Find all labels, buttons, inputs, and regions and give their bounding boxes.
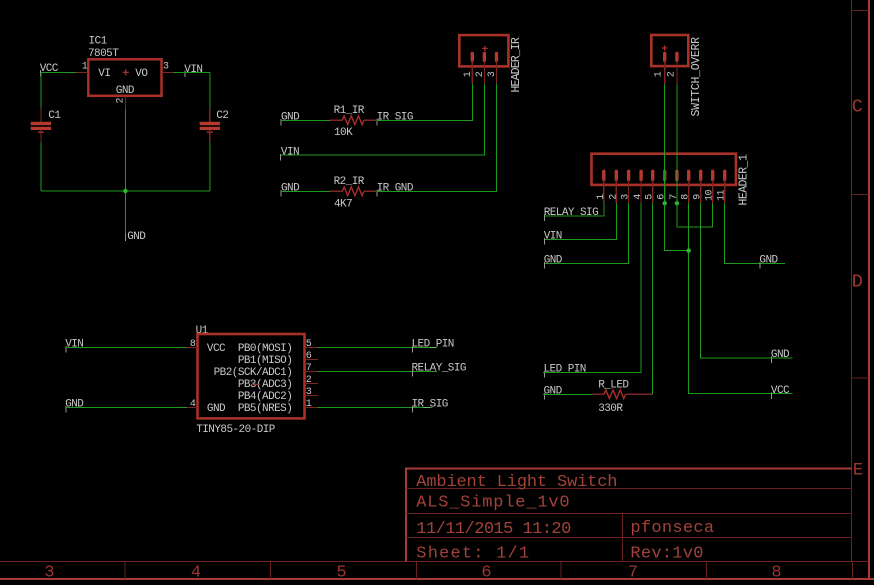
junction header pin6 — [663, 201, 667, 205]
svg-text:GND: GND — [65, 399, 84, 411]
IC U1 body — [198, 334, 305, 418]
svg-text:1: 1 — [596, 194, 607, 200]
svg-text:C1: C1 — [48, 110, 61, 122]
wire GND to R_LED — [543, 393, 593, 395]
svg-text:IC1: IC1 — [89, 36, 108, 48]
svg-text:PB5(NRES): PB5(NRES) — [238, 403, 292, 415]
tick IR_GND — [376, 190, 378, 197]
wire U1 pin7 RELAY_SIG — [318, 371, 437, 373]
svg-text:8: 8 — [771, 564, 781, 583]
wire ground rail — [41, 190, 210, 192]
svg-text:1: 1 — [653, 71, 664, 77]
tick RELAY_SIG header — [544, 214, 546, 221]
svg-text:9: 9 — [693, 194, 704, 200]
capacitor C2 — [200, 109, 220, 143]
wire header pin11 to GND — [725, 203, 786, 263]
svg-text:VIN: VIN — [65, 339, 83, 351]
junction header pin7 — [675, 201, 679, 205]
frame row divider B/C — [851, 9, 869, 11]
svg-text:SWITCH_OVERR: SWITCH_OVERR — [690, 37, 703, 117]
svg-text:3: 3 — [487, 71, 498, 77]
IC1 pin lead VO — [162, 71, 174, 73]
title block separator 2 — [406, 513, 851, 515]
svg-text:6: 6 — [306, 351, 312, 362]
svg-text:VCC: VCC — [40, 63, 59, 75]
svg-text:GND: GND — [544, 385, 563, 397]
wire header pin3 GND — [545, 203, 629, 263]
svg-text:330R: 330R — [598, 403, 623, 415]
wire left vertical lower — [40, 143, 42, 191]
svg-text:4: 4 — [190, 399, 196, 410]
wire header pin9 to GND right — [701, 203, 793, 358]
svg-text:ALS_Simple_1v0: ALS_Simple_1v0 — [416, 493, 570, 512]
svg-text:3: 3 — [621, 194, 632, 200]
tick LED_PIN U1 — [411, 346, 413, 353]
IC1 pin lead GND — [124, 96, 126, 109]
svg-text:2: 2 — [666, 71, 677, 77]
tick GND R2 — [280, 190, 282, 197]
wire left vertical upper — [40, 72, 42, 108]
wire SWITCH_OVERR pin2 down to header pin7 — [676, 84, 678, 203]
svg-text:C2: C2 — [216, 110, 228, 122]
svg-text:10K: 10K — [334, 127, 353, 139]
svg-text:5: 5 — [306, 339, 312, 350]
svg-text:Rev:1v0: Rev:1v0 — [630, 544, 703, 563]
tick GND bottom — [124, 234, 126, 241]
tick GND header pin3 — [544, 262, 546, 269]
HEADER_IR pin lead 3 — [496, 61, 498, 84]
wire GND to R1 — [281, 119, 330, 121]
frame column divider 8/end — [852, 562, 854, 579]
regulator IC1 body — [88, 59, 161, 96]
tick GND R_LED — [543, 393, 545, 400]
svg-text:HEADER_IR: HEADER_IR — [510, 37, 523, 92]
wire right vertical upper — [209, 72, 211, 108]
capacitor C1 — [31, 109, 51, 143]
svg-text:E: E — [853, 461, 864, 481]
svg-text:VCC: VCC — [771, 385, 790, 397]
SWITCH_OVERR pin lead 2 — [676, 61, 678, 85]
svg-text:PB3(ADC3): PB3(ADC3) — [238, 379, 292, 391]
wire VIN to U1 pin8 — [66, 347, 187, 349]
title block border — [405, 469, 851, 562]
wire GND to U1 pin4 — [66, 407, 187, 409]
HEADER_IR pin stub 1 — [471, 53, 474, 60]
frame outer vertical line — [868, 0, 870, 580]
wire header pin4 LED_PIN — [543, 203, 641, 372]
svg-text:1: 1 — [306, 399, 312, 410]
tick GND right mid — [771, 357, 773, 364]
wire header pin2 VIN — [545, 203, 616, 240]
wire VIN to header — [281, 84, 485, 156]
IC1 pin lead VI — [77, 71, 89, 73]
title block vertical divider — [621, 514, 623, 562]
frame row divider C/D — [851, 194, 869, 196]
svg-text:VCC: VCC — [207, 343, 226, 355]
svg-text:VO: VO — [135, 68, 148, 80]
HEADER_1 pin stubs — [604, 171, 725, 179]
connector SWITCH_OVERR body — [651, 35, 688, 66]
wire header pin7 to pin10 — [677, 203, 713, 227]
tick GND pin11 — [759, 262, 761, 269]
tick VIN header — [544, 238, 546, 245]
junction ground rail — [123, 189, 127, 193]
frame outer bottom line — [0, 578, 874, 580]
svg-text:GND: GND — [759, 255, 778, 267]
wire GND stem — [124, 109, 126, 239]
svg-text:RELAY_SIG: RELAY_SIG — [412, 363, 466, 375]
svg-text:R2_IR: R2_IR — [334, 176, 365, 188]
tick IR_SIG R1 — [376, 119, 378, 126]
title block separator 3 — [406, 536, 851, 538]
wire right vertical lower — [209, 143, 211, 191]
wire IR_GND to header — [377, 84, 497, 192]
svg-text:1: 1 — [463, 71, 474, 77]
svg-text:VIN: VIN — [544, 231, 562, 243]
svg-text:GND: GND — [544, 255, 563, 267]
svg-text:GND: GND — [281, 182, 300, 194]
svg-text:11/11/2015 11:20: 11/11/2015 11:20 — [416, 520, 571, 539]
frame inner bottom line — [0, 561, 869, 563]
svg-text:R1_IR: R1_IR — [334, 105, 365, 117]
wire SWITCH_OVERR pin1 down to header pin6 — [664, 84, 666, 203]
svg-text:RELAY_SIG: RELAY_SIG — [544, 207, 598, 219]
svg-text:GND: GND — [771, 349, 790, 361]
IC1 plus sign — [123, 69, 129, 75]
HEADER_IR pin lead 1 — [471, 61, 473, 84]
red dash over PB3 — [252, 383, 260, 385]
svg-text:8: 8 — [190, 339, 196, 350]
wire IR_SIG to header — [377, 84, 473, 121]
SWITCH_OVERR pin lead 1 — [664, 61, 666, 85]
SWITCH_OVERR pin stub 2 — [675, 53, 678, 60]
svg-text:4K7: 4K7 — [334, 199, 352, 211]
svg-text:LED_PIN: LED_PIN — [544, 363, 586, 375]
svg-text:VIN: VIN — [281, 146, 299, 158]
frame inner vertical line — [850, 0, 852, 562]
tick VIN U1 — [65, 346, 67, 353]
connector HEADER_1 body — [592, 154, 736, 185]
svg-text:VIN: VIN — [184, 64, 202, 76]
svg-text:Ambient Light Switch: Ambient Light Switch — [416, 473, 617, 492]
svg-text:2: 2 — [475, 71, 486, 77]
svg-text:C: C — [852, 97, 863, 118]
wire header pin5 to R_LED — [652, 203, 654, 394]
HEADER_IR pin lead 2 — [483, 61, 485, 84]
tick RELAY_SIG U1 — [411, 370, 413, 377]
frame row divider D/E — [851, 377, 869, 379]
svg-text:7: 7 — [628, 564, 638, 583]
wire IC1 to C2 — [173, 71, 210, 73]
wire GND to R2 — [281, 190, 330, 192]
svg-text:3: 3 — [44, 564, 54, 583]
tick VCC — [39, 70, 41, 77]
tick IR_SIG U1 — [411, 406, 413, 413]
svg-text:1: 1 — [82, 62, 88, 73]
svg-text:Sheet: 1/1: Sheet: 1/1 — [416, 544, 530, 563]
svg-text:PB0(MOSI): PB0(MOSI) — [238, 343, 292, 355]
svg-text:7: 7 — [306, 363, 312, 374]
svg-text:5: 5 — [336, 564, 346, 583]
svg-text:GND: GND — [127, 231, 146, 243]
svg-text:4: 4 — [633, 194, 644, 200]
svg-text:IR_SIG: IR_SIG — [412, 399, 448, 411]
resistor R1_IR — [330, 116, 376, 125]
U1 pin lead 8 — [187, 347, 198, 349]
svg-text:pfonseca: pfonseca — [630, 519, 714, 538]
svg-text:11: 11 — [717, 189, 728, 201]
wire header pin1 RELAY_SIG — [545, 203, 604, 216]
HEADER_1 pin leads — [604, 180, 725, 203]
svg-text:GND: GND — [207, 403, 226, 415]
connector HEADER_IR body — [459, 35, 508, 66]
wire header pin8 down to VCC — [689, 203, 793, 394]
svg-text:GND: GND — [281, 112, 300, 124]
HEADER_IR pin stub 3 — [495, 53, 498, 60]
svg-text:IR_SIG: IR_SIG — [377, 112, 413, 124]
svg-text:D: D — [852, 272, 863, 293]
frame column divider 6/7 — [560, 562, 562, 579]
tick LED_PIN header — [543, 371, 545, 378]
wire VCC to IC1 — [41, 71, 77, 73]
svg-text:LED_PIN: LED_PIN — [412, 339, 454, 351]
svg-text:TINY85-20-DIP: TINY85-20-DIP — [196, 424, 276, 436]
svg-text:6: 6 — [481, 564, 491, 583]
SWITCH_OVERR plus sign — [662, 45, 668, 51]
SWITCH_OVERR pin stub 1 — [663, 53, 666, 60]
frame column divider 4/5 — [270, 562, 272, 579]
svg-text:6: 6 — [657, 194, 668, 200]
svg-text:2: 2 — [306, 375, 312, 386]
junction pin8 rail — [687, 248, 691, 252]
U1 right pin leads — [305, 348, 319, 408]
svg-text:3: 3 — [163, 62, 169, 73]
wire header pin6 to pin8 rail — [665, 203, 689, 250]
svg-text:GND: GND — [116, 85, 135, 97]
svg-text:5: 5 — [645, 194, 656, 200]
svg-text:PB2(SCK/ADC1): PB2(SCK/ADC1) — [214, 367, 293, 379]
svg-text:PB1(MISO): PB1(MISO) — [238, 355, 292, 367]
wire U1 pin1 IR_SIG — [318, 407, 433, 409]
resistor R2_IR — [330, 187, 376, 196]
svg-text:10: 10 — [705, 189, 716, 201]
svg-text:7: 7 — [669, 194, 680, 200]
svg-text:R_LED: R_LED — [598, 380, 629, 392]
svg-text:2: 2 — [608, 194, 619, 200]
wire U1 pin5 LED_PIN — [318, 347, 437, 349]
svg-text:3: 3 — [306, 387, 312, 398]
frame column divider 7/8 — [706, 562, 708, 579]
frame column divider 5/6 — [416, 562, 418, 579]
svg-text:HEADER_1: HEADER_1 — [738, 154, 751, 205]
svg-text:PB4(ADC2): PB4(ADC2) — [238, 391, 292, 403]
tick VIN mid — [280, 154, 282, 161]
resistor R_LED — [593, 390, 653, 399]
HEADER_IR pin stub 2 — [483, 53, 486, 60]
tick GND U1 — [65, 406, 67, 413]
tick VCC right — [771, 392, 773, 399]
svg-text:2: 2 — [115, 98, 126, 104]
U1 pin lead 4 — [187, 407, 198, 409]
tick GND R1 — [280, 119, 282, 126]
title block separator 1 — [406, 488, 851, 490]
svg-text:8: 8 — [681, 194, 692, 200]
frame column divider 3/4 — [124, 562, 126, 579]
tick VIN top — [184, 70, 186, 77]
svg-text:4: 4 — [191, 564, 201, 583]
svg-text:VI: VI — [98, 68, 110, 80]
HEADER_IR plus sign — [482, 46, 488, 52]
svg-text:IR_GND: IR_GND — [377, 182, 414, 194]
